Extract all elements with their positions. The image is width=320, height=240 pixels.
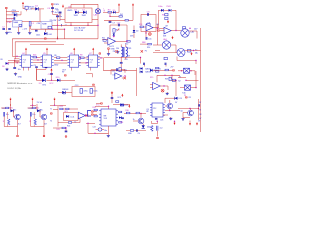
pin J2 phase	[51, 3, 60, 6]
bus wire	[104, 70, 137, 72]
svg-text:470u: 470u	[83, 91, 87, 93]
ground	[28, 26, 31, 34]
svg-text:5V 1A: 5V 1A	[37, 101, 43, 104]
svg-text:R11: R11	[102, 38, 105, 40]
wire	[53, 106, 58, 127]
tick	[51, 12, 59, 14]
wire	[98, 57, 103, 58]
wire	[53, 127, 62, 129]
wire	[103, 58, 105, 71]
arrow	[191, 52, 193, 55]
capacitor C15	[120, 57, 128, 71]
label	[54, 64, 59, 66]
indicator	[145, 32, 151, 35]
wire	[58, 119, 80, 123]
pin	[16, 127, 18, 137]
wire	[12, 56, 19, 57]
wire	[190, 109, 192, 111]
resistor R23	[66, 108, 69, 110]
svg-text:MIRROR Electronics s.r.o.: MIRROR Electronics s.r.o.	[8, 82, 33, 85]
svg-text:R13: R13	[139, 24, 142, 26]
svg-text:T21: T21	[36, 107, 39, 109]
wire	[104, 42, 108, 44]
ground	[107, 48, 110, 55]
resistor R25	[56, 127, 65, 131]
svg-text:R12: R12	[125, 44, 128, 46]
resistor R28	[116, 101, 119, 103]
arrow	[167, 20, 169, 23]
resistor R17	[165, 67, 175, 72]
svg-text:R9: R9	[54, 55, 56, 57]
power arrow	[51, 68, 53, 80]
svg-text:R24: R24	[67, 126, 70, 128]
svg-text:10n: 10n	[18, 69, 21, 71]
capacitor C30	[35, 23, 40, 36]
wire	[87, 22, 88, 26]
svg-text:10u: 10u	[32, 114, 35, 116]
filter box	[72, 87, 95, 97]
wire	[26, 9, 28, 11]
svg-text:D8: D8	[2, 66, 4, 68]
ground	[166, 92, 169, 95]
power arrow	[32, 98, 34, 108]
svg-text:R29: R29	[120, 106, 123, 108]
svg-text:F1: F1	[145, 51, 147, 53]
wire	[177, 57, 197, 65]
wire	[171, 79, 177, 96]
wire	[70, 4, 72, 8]
wire	[140, 113, 146, 115]
wire	[185, 80, 198, 81]
wire	[83, 4, 85, 8]
svg-text:C17: C17	[117, 22, 120, 24]
resistor R13	[139, 24, 143, 28]
wire	[156, 75, 158, 82]
resistor R9	[54, 55, 60, 59]
bus wire	[12, 38, 98, 40]
svg-text:100n: 100n	[93, 91, 97, 93]
resistor R7	[188, 49, 191, 52]
power arrow	[46, 48, 48, 55]
wire	[58, 92, 72, 94]
capacitor C11	[13, 68, 20, 72]
svg-text:R18: R18	[165, 79, 168, 81]
ic U14	[150, 103, 165, 117]
arrow	[62, 5, 64, 8]
capacitor C22	[65, 130, 68, 133]
wire	[54, 60, 68, 61]
wire	[155, 50, 160, 52]
svg-text:D19: D19	[179, 98, 182, 100]
svg-text:230: 230	[116, 48, 119, 50]
junction	[51, 80, 52, 81]
red cross	[141, 50, 147, 52]
diode D16	[150, 68, 161, 72]
resistor R27	[94, 115, 97, 117]
op-amp U3	[163, 26, 171, 38]
wire	[24, 67, 29, 70]
capacitor C6	[56, 9, 65, 22]
capacitor C7	[109, 20, 116, 24]
svg-text:TR1: TR1	[128, 48, 132, 50]
svg-text:10u: 10u	[6, 114, 9, 116]
driver cell Q2	[28, 104, 48, 127]
svg-text:1k: 1k	[74, 121, 76, 123]
wire	[14, 60, 16, 67]
label	[195, 50, 198, 55]
wire	[31, 20, 41, 22]
svg-text:4k7: 4k7	[18, 124, 21, 126]
label	[111, 49, 116, 51]
wire	[140, 114, 142, 118]
wire top	[111, 92, 114, 103]
isolation module U2 box	[65, 8, 92, 22]
wire	[14, 60, 20, 62]
capacitor C12	[48, 74, 53, 76]
ground	[5, 68, 8, 71]
diode D7	[166, 6, 171, 11]
resistor R11	[102, 38, 106, 42]
wire	[109, 12, 110, 17]
svg-text:NME: NME	[42, 23, 47, 25]
wire	[39, 9, 41, 22]
svg-text:NMA: NMA	[13, 21, 18, 24]
wire	[198, 99, 200, 120]
svg-text:P9: P9	[184, 95, 186, 97]
diode D9	[39, 79, 46, 87]
title text	[8, 82, 33, 85]
pin	[184, 95, 192, 99]
wire	[65, 127, 66, 131]
wire	[5, 9, 7, 30]
wire	[53, 13, 58, 15]
capacitor C5	[56, 14, 62, 39]
regulator U1	[25, 6, 35, 10]
power arrow	[92, 48, 94, 55]
wire	[103, 11, 119, 13]
pin J1 mains input	[5, 7, 7, 9]
capacitor C9	[33, 65, 37, 80]
label	[128, 133, 141, 135]
wire	[31, 8, 35, 10]
wire	[38, 8, 44, 10]
svg-text:DC 9V 2A: DC 9V 2A	[74, 29, 84, 32]
svg-text:R33: R33	[33, 54, 36, 56]
wire	[159, 27, 166, 29]
lamp X1	[94, 9, 101, 17]
svg-text:R30: R30	[125, 110, 128, 112]
capacitor C25	[135, 129, 138, 132]
diode D6	[158, 6, 163, 11]
resistor R14	[140, 43, 151, 49]
wire	[183, 113, 190, 118]
wire	[116, 51, 122, 63]
svg-text:LL41: LL41	[48, 34, 52, 36]
label U2	[68, 6, 71, 8]
wire	[57, 37, 59, 39]
svg-text:C26: C26	[160, 120, 163, 122]
svg-text:C1 1n: C1 1n	[7, 18, 14, 20]
svg-text:D10: D10	[56, 77, 59, 79]
red cross	[85, 114, 88, 117]
label PS1	[7, 22, 12, 24]
resistor R12	[125, 41, 130, 46]
resistor R1 label	[12, 10, 17, 12]
wire	[178, 77, 186, 79]
driver cell Q1	[1, 104, 21, 127]
label	[150, 77, 153, 79]
connector J4	[88, 111, 94, 117]
svg-text:230V: 230V	[54, 4, 60, 6]
svg-text:1N41: 1N41	[74, 15, 79, 17]
wire	[33, 62, 43, 64]
wire	[52, 5, 54, 14]
ground	[169, 117, 172, 120]
svg-text:R14: R14	[147, 47, 150, 49]
label	[0, 0, 1, 1]
wire	[86, 123, 109, 134]
resistor R6	[165, 17, 168, 19]
junction	[126, 41, 127, 42]
capacitor C13	[80, 89, 88, 94]
resistor R31	[136, 112, 142, 114]
diode D8	[6, 62, 9, 65]
wire	[156, 121, 158, 139]
svg-text:U11: U11	[112, 74, 115, 76]
label	[175, 102, 178, 104]
wire	[185, 50, 201, 51]
lamp H3	[153, 49, 185, 57]
pin	[65, 136, 67, 138]
svg-text:+12V: +12V	[22, 29, 27, 31]
optocoupler U6	[68, 53, 81, 67]
svg-text:1k: 1k	[3, 121, 5, 123]
pin	[157, 30, 164, 32]
svg-text:DC/DC 5V,2A: DC/DC 5V,2A	[8, 87, 22, 90]
wire	[78, 11, 83, 13]
wire	[189, 30, 197, 32]
lamp H2	[162, 38, 170, 49]
wire	[165, 110, 180, 111]
svg-text:R8: R8	[80, 55, 82, 57]
wire	[116, 40, 130, 42]
diode D3	[74, 10, 79, 17]
svg-text:GND: GND	[18, 77, 23, 79]
pin	[44, 38, 46, 40]
diode D2	[35, 6, 39, 11]
label	[179, 76, 181, 78]
transistor Q5	[180, 110, 193, 116]
capacitor C2	[2, 27, 5, 30]
svg-text:R19: R19	[150, 77, 153, 79]
resistor R15	[156, 67, 159, 69]
svg-text:C30: C30	[37, 23, 40, 25]
svg-text:Q5: Q5	[180, 111, 182, 113]
note text	[74, 26, 86, 31]
svg-text:R22: R22	[60, 106, 63, 108]
wire	[196, 31, 198, 39]
capacitor C10	[42, 65, 47, 69]
svg-text:10n: 10n	[148, 38, 151, 40]
arrow	[172, 36, 174, 39]
wire	[110, 24, 127, 26]
wire	[79, 62, 89, 63]
wire	[171, 75, 173, 79]
capacitor C19	[143, 63, 144, 67]
resistor R22	[60, 106, 63, 110]
wire	[54, 62, 68, 64]
optocoupler U7	[87, 53, 100, 67]
junction	[57, 38, 58, 39]
diode D11	[62, 89, 68, 94]
power arrow	[25, 48, 27, 55]
svg-text:BAT43: BAT43	[145, 67, 150, 70]
transistor Q3	[133, 118, 144, 124]
label	[49, 83, 54, 85]
red cross	[122, 75, 126, 79]
svg-text:250V: 250V	[166, 6, 171, 8]
capacitor C21	[112, 68, 118, 72]
wire	[157, 75, 180, 76]
label	[2, 66, 4, 68]
wire	[37, 68, 47, 70]
rc network	[151, 121, 163, 131]
power arrow	[128, 104, 130, 107]
bus wire right vertical	[200, 28, 202, 132]
capacitor C17	[117, 22, 120, 26]
resistor R24	[67, 122, 72, 128]
diode D19	[165, 97, 182, 103]
svg-text:BY2: BY2	[43, 84, 47, 86]
resistor R8	[79, 55, 84, 59]
wire	[195, 71, 197, 88]
dc-dc module PS2	[41, 22, 52, 30]
diode box	[64, 111, 79, 121]
wire	[97, 4, 98, 39]
svg-text:GND: GND	[54, 64, 59, 66]
wire	[8, 59, 20, 61]
svg-text:100n: 100n	[36, 34, 40, 36]
label	[37, 101, 43, 104]
resistor R3	[108, 10, 112, 13]
label	[50, 108, 53, 122]
resistor R32	[130, 130, 133, 132]
capacitor C24	[120, 118, 124, 124]
diode D5	[113, 10, 116, 14]
bus wire	[30, 43, 64, 45]
wire	[108, 106, 109, 109]
label	[130, 35, 133, 37]
svg-text:LL41: LL41	[70, 116, 74, 118]
svg-text:C12: C12	[48, 74, 51, 76]
diode D4	[82, 10, 87, 17]
wire	[96, 103, 103, 105]
svg-text:4007: 4007	[147, 127, 151, 129]
pin	[92, 84, 94, 86]
wire	[92, 18, 98, 20]
capacitor C16	[119, 68, 127, 72]
power arrow	[196, 121, 201, 126]
svg-text:T2: T2	[50, 120, 52, 122]
ground	[5, 31, 8, 34]
op-amp U10	[150, 83, 160, 90]
resistor R5	[125, 20, 128, 22]
trim cross	[117, 29, 120, 32]
transistor Q4	[165, 100, 173, 111]
diode D15	[140, 71, 151, 74]
ground	[17, 27, 20, 34]
svg-text:R26: R26	[92, 107, 95, 109]
wire	[160, 85, 168, 90]
diode D1	[14, 11, 21, 16]
capacitor C20	[165, 63, 166, 67]
svg-text:1k: 1k	[133, 119, 135, 121]
svg-text:33n: 33n	[59, 16, 62, 18]
wire	[94, 112, 98, 115]
optocoupler U5	[41, 53, 54, 67]
wire	[136, 68, 138, 96]
wire	[104, 57, 141, 59]
wire	[64, 29, 66, 39]
wire	[30, 105, 66, 106]
label	[63, 94, 65, 96]
label col	[146, 109, 149, 113]
ic U13	[99, 109, 118, 126]
label	[178, 80, 180, 82]
indicator	[161, 89, 164, 92]
wire	[29, 26, 31, 29]
wire	[63, 108, 78, 110]
wire	[95, 105, 109, 107]
inductor L1	[29, 22, 35, 27]
svg-text:BAT43: BAT43	[145, 71, 150, 74]
diode D18	[142, 124, 151, 129]
svg-text:5V6: 5V6	[130, 35, 133, 37]
capacitor C1	[6, 17, 15, 20]
svg-text:LM: LM	[165, 26, 168, 28]
svg-text:U9: U9	[148, 23, 150, 25]
label	[120, 104, 123, 108]
boxX contact K1b	[180, 85, 197, 94]
wire	[175, 45, 177, 53]
label col right	[199, 102, 203, 120]
resistor R10	[113, 29, 119, 33]
resistor R4	[119, 14, 123, 17]
label C4 value	[55, 8, 58, 10]
transformer TR1	[116, 44, 127, 57]
wire	[86, 74, 92, 78]
bus wire	[37, 79, 76, 81]
wire	[153, 69, 165, 71]
ground	[14, 72, 17, 75]
wire	[54, 57, 68, 59]
label input	[1, 59, 4, 61]
svg-text:R21: R21	[29, 108, 32, 110]
svg-text:1k: 1k	[29, 121, 31, 123]
op-amp U12	[78, 112, 85, 119]
label	[117, 94, 123, 99]
resistor R33	[33, 54, 36, 58]
junction	[14, 60, 18, 64]
wire	[70, 22, 71, 26]
relay coil K1	[146, 24, 150, 32]
svg-text:T20: T20	[10, 107, 13, 109]
label	[18, 77, 23, 79]
wire	[6, 14, 14, 16]
wire	[33, 57, 41, 58]
svg-text:1M: 1M	[58, 20, 61, 22]
wire	[110, 15, 119, 17]
